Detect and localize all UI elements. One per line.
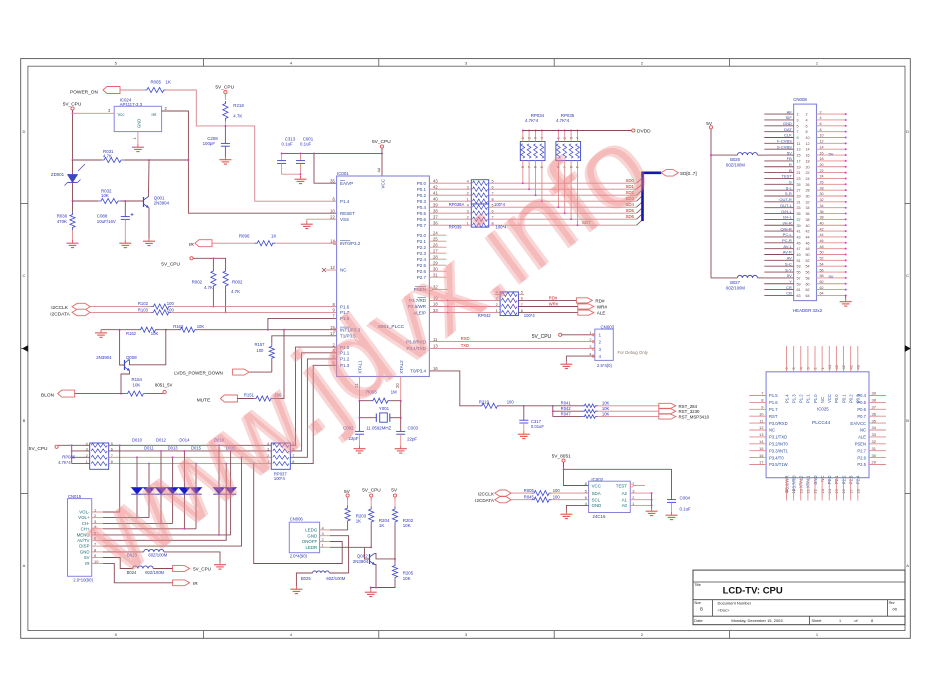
svg-text:ZD001: ZD001 xyxy=(51,172,65,177)
svg-text:P0.7: P0.7 xyxy=(417,223,427,228)
svg-text:A0: A0 xyxy=(622,503,628,508)
svg-text:30: 30 xyxy=(820,192,824,196)
svg-text:27: 27 xyxy=(797,189,801,193)
svg-text:P1.4: P1.4 xyxy=(784,394,789,403)
capacitor C088 electrolytic xyxy=(124,201,126,217)
svg-text:P0.3: P0.3 xyxy=(417,199,427,204)
svg-text:62: 62 xyxy=(820,286,824,290)
svg-text:4.7K: 4.7K xyxy=(233,114,242,119)
svg-text:7: 7 xyxy=(797,130,799,134)
svg-text:INT0/P3.2: INT0/P3.2 xyxy=(340,241,361,246)
svg-text:2: 2 xyxy=(599,339,602,344)
svg-text:10K: 10K xyxy=(197,324,205,329)
svg-text:4: 4 xyxy=(467,180,469,184)
svg-text:VSS: VSS xyxy=(340,217,349,222)
svg-text:CN006: CN006 xyxy=(290,517,304,522)
svg-text:29: 29 xyxy=(797,195,801,199)
svg-text:6: 6 xyxy=(806,124,808,128)
svg-text:48: 48 xyxy=(820,245,824,249)
wire GND pin xyxy=(566,505,588,511)
svg-text:31: 31 xyxy=(872,446,877,451)
svg-text:51: 51 xyxy=(797,259,801,263)
svg-text:4.7K: 4.7K xyxy=(204,285,213,290)
svg-text:8: 8 xyxy=(806,130,808,134)
port 5V_CPU out xyxy=(173,566,190,572)
wire P2 stub xyxy=(429,240,446,242)
svg-text:AV: AV xyxy=(787,256,792,261)
svg-text:10K: 10K xyxy=(602,406,610,411)
ground xyxy=(523,431,525,434)
svg-text:14: 14 xyxy=(759,439,764,444)
svg-text:15: 15 xyxy=(759,446,764,451)
svg-text:I2CDATA: I2CDATA xyxy=(475,498,495,503)
wire P2 stub xyxy=(429,264,446,266)
svg-text:CN008: CN008 xyxy=(793,97,807,102)
wire IR out xyxy=(103,563,173,582)
svg-text:31: 31 xyxy=(797,200,801,204)
svg-text:R002: R002 xyxy=(232,279,243,284)
svg-text:20: 20 xyxy=(806,165,810,169)
svg-text:C004: C004 xyxy=(680,496,691,501)
svg-text:RD#: RD# xyxy=(549,295,558,300)
svg-text:18: 18 xyxy=(820,157,824,161)
svg-text:1: 1 xyxy=(797,113,799,117)
svg-text:5V_CPU: 5V_CPU xyxy=(193,567,211,572)
svg-text:SIF: SIF xyxy=(786,115,793,120)
svg-text:35: 35 xyxy=(330,178,335,183)
svg-text:R: R xyxy=(789,162,792,167)
svg-text:P3.3/INT1: P3.3/INT1 xyxy=(769,448,789,453)
svg-text:S-R: S-R xyxy=(785,191,792,196)
svg-text:36: 36 xyxy=(806,212,810,216)
svg-text:DVDD: DVDD xyxy=(637,128,651,134)
svg-text:5V_CPU: 5V_CPU xyxy=(215,84,234,90)
svg-text:I2CCLK: I2CCLK xyxy=(478,492,495,497)
port RST_284 xyxy=(659,403,676,408)
svg-text:43: 43 xyxy=(433,178,438,183)
svg-text:25: 25 xyxy=(797,183,801,187)
svg-text:38: 38 xyxy=(806,218,810,222)
svg-text:SD[0..7]: SD[0..7] xyxy=(680,171,697,176)
svg-text:41: 41 xyxy=(433,190,438,195)
svg-text:3: 3 xyxy=(86,447,88,451)
svg-text:2.0*10(90): 2.0*10(90) xyxy=(73,578,93,583)
wire CN008 right ground stem xyxy=(845,295,847,298)
svg-text:PC-R: PC-R xyxy=(782,238,792,243)
svg-text:13: 13 xyxy=(759,432,764,437)
svg-text:R041: R041 xyxy=(561,401,572,406)
ground xyxy=(124,240,126,243)
svg-text:40: 40 xyxy=(820,221,824,225)
svg-text:28: 28 xyxy=(806,189,810,193)
svg-text:22: 22 xyxy=(330,214,335,219)
svg-text:60Z/100M: 60Z/100M xyxy=(326,576,345,581)
svg-text:29: 29 xyxy=(872,460,877,465)
svg-text:P1.4: P1.4 xyxy=(340,199,350,204)
ground xyxy=(295,586,297,589)
svg-text:RST_284: RST_284 xyxy=(679,404,698,409)
wire EA/VP xyxy=(314,153,337,183)
svg-text:RP036: RP036 xyxy=(62,455,75,460)
svg-text:44: 44 xyxy=(820,233,824,237)
svg-text:0.1uF: 0.1uF xyxy=(300,141,312,146)
port IR out xyxy=(173,580,190,586)
svg-text:19: 19 xyxy=(797,165,801,169)
svg-text:EA/VCC: EA/VCC xyxy=(850,421,866,426)
svg-text:Q002: Q002 xyxy=(357,553,368,558)
svg-text:100pF: 100pF xyxy=(203,141,216,146)
svg-text:DISP: DISP xyxy=(79,544,89,549)
svg-text:8: 8 xyxy=(820,128,822,132)
svg-text:LCD-TV: CPU: LCD-TV: CPU xyxy=(723,586,783,597)
ground xyxy=(72,240,74,243)
svg-text:WR#: WR# xyxy=(549,302,559,307)
svg-text:Rev: Rev xyxy=(889,601,895,605)
svg-text:10K: 10K xyxy=(602,411,610,416)
svg-text:P1.0: P1.0 xyxy=(813,394,818,403)
svg-text:Sheet: Sheet xyxy=(812,619,823,623)
svg-text:P0.3: P0.3 xyxy=(856,394,861,403)
svg-text:B: B xyxy=(789,168,792,173)
svg-text:DAT: DAT xyxy=(784,127,792,132)
ground xyxy=(400,446,402,449)
svg-text:10K: 10K xyxy=(403,576,411,581)
svg-text:I2CDATA: I2CDATA xyxy=(50,311,70,317)
svg-text:4.7K*4: 4.7K*4 xyxy=(525,118,539,123)
svg-text:56: 56 xyxy=(806,271,810,275)
svg-text:2: 2 xyxy=(86,454,88,458)
svg-text:AV-R: AV-R xyxy=(783,250,792,255)
svg-text:0.1uF: 0.1uF xyxy=(282,141,294,146)
wire P2 stub xyxy=(429,246,446,248)
svg-text:P3.0/RXD: P3.0/RXD xyxy=(769,421,788,426)
svg-text:58: 58 xyxy=(806,276,810,280)
svg-text:4.7K*4: 4.7K*4 xyxy=(556,118,570,123)
svg-text:P0.1: P0.1 xyxy=(417,187,427,192)
wire emitter xyxy=(148,208,150,239)
svg-text:GND: GND xyxy=(307,533,317,538)
svg-text:Vcc: Vcc xyxy=(118,112,125,117)
wire riser MUTE to INT1 row xyxy=(274,330,285,399)
svg-text:5V: 5V xyxy=(787,273,792,278)
wire P2 stub xyxy=(429,258,446,260)
svg-text:58: 58 xyxy=(820,274,824,278)
svg-text:37: 37 xyxy=(433,214,438,219)
wire to INT0 xyxy=(275,242,336,244)
svg-text:4: 4 xyxy=(599,354,602,359)
svg-text:R096: R096 xyxy=(239,234,250,239)
svg-text:CN003: CN003 xyxy=(601,324,615,329)
svg-text:37: 37 xyxy=(872,405,877,410)
svg-text:42: 42 xyxy=(433,184,438,189)
svg-text:R102: R102 xyxy=(138,301,149,306)
svg-text:42: 42 xyxy=(806,230,810,234)
wire VCC net xyxy=(564,462,589,485)
svg-text:100: 100 xyxy=(553,495,561,500)
svg-text:B027: B027 xyxy=(730,280,740,285)
svg-text:BLON: BLON xyxy=(41,392,55,398)
svg-text:34: 34 xyxy=(820,204,824,208)
wire DISP riser xyxy=(103,457,242,546)
svg-text:21: 21 xyxy=(797,171,801,175)
wire GND to B025 xyxy=(330,536,349,573)
wire RD WR ALE rows xyxy=(429,299,500,301)
svg-text:12: 12 xyxy=(806,142,810,146)
svg-text:60: 60 xyxy=(820,280,824,284)
svg-text:10: 10 xyxy=(330,208,335,213)
svg-text:3: 3 xyxy=(797,118,799,122)
svg-text:22: 22 xyxy=(820,169,824,173)
svg-text:R157: R157 xyxy=(255,342,266,347)
svg-text:2.5*4(0): 2.5*4(0) xyxy=(597,363,613,368)
svg-text:2.0*4(90): 2.0*4(90) xyxy=(290,554,308,559)
svg-text:ret: ret xyxy=(152,112,158,117)
svg-text:S-Y: S-Y xyxy=(785,267,792,272)
svg-text:5V: 5V xyxy=(829,274,834,279)
svg-text:P0.2: P0.2 xyxy=(417,193,427,198)
svg-text:P0.6: P0.6 xyxy=(857,407,866,412)
wire T0/P3.4 xyxy=(429,371,479,406)
svg-text:5V_CPU: 5V_CPU xyxy=(161,262,180,268)
svg-text:2: 2 xyxy=(820,110,822,114)
svg-text:41: 41 xyxy=(797,230,801,234)
svg-text:S-CVBS: S-CVBS xyxy=(777,144,792,149)
svg-text:Title: Title xyxy=(695,583,701,587)
svg-text:0.1uF: 0.1uF xyxy=(680,507,692,512)
ground xyxy=(148,238,150,241)
wire collector xyxy=(130,330,166,365)
svg-text:9: 9 xyxy=(797,136,799,140)
ground xyxy=(359,446,361,449)
svg-text:32: 32 xyxy=(872,439,877,444)
svg-text:23: 23 xyxy=(797,177,801,181)
svg-text:24C16: 24C16 xyxy=(593,514,606,519)
wire xyxy=(250,371,272,373)
resistor pack RP042 xyxy=(500,292,518,316)
svg-text:20: 20 xyxy=(820,163,824,167)
svg-text:NC: NC xyxy=(340,268,347,273)
wire xyxy=(58,444,89,446)
svg-text:52: 52 xyxy=(806,259,810,263)
IC002 TEST pin stub xyxy=(630,484,633,487)
svg-text:3: 3 xyxy=(534,137,538,139)
svg-text:B: B xyxy=(906,418,909,423)
svg-text:Document Number: Document Number xyxy=(718,601,752,606)
svg-text:ALE: ALE xyxy=(597,311,606,316)
port SD[0..7] xyxy=(661,170,678,177)
svg-text:64: 64 xyxy=(820,292,824,296)
svg-text:GND: GND xyxy=(783,121,792,126)
svg-text:12: 12 xyxy=(759,425,764,430)
svg-text:24: 24 xyxy=(806,177,810,181)
svg-text:CR: CR xyxy=(786,285,792,290)
svg-text:P1.5: P1.5 xyxy=(769,393,778,398)
svg-text:P0.2: P0.2 xyxy=(848,394,853,403)
svg-text:OUT-R: OUT-R xyxy=(779,197,792,202)
svg-text:CB: CB xyxy=(786,291,792,296)
svg-text:100: 100 xyxy=(553,488,561,493)
svg-text:53: 53 xyxy=(797,265,801,269)
svg-text:38: 38 xyxy=(820,216,824,220)
svg-text:EA/VP: EA/VP xyxy=(340,181,353,186)
bus SD[0..7] xyxy=(637,178,643,184)
wire keypad rows xyxy=(109,444,272,446)
svg-text:48: 48 xyxy=(806,247,810,251)
svg-text:2N3904: 2N3904 xyxy=(154,201,170,206)
ground xyxy=(565,511,567,514)
svg-text:44: 44 xyxy=(806,235,810,239)
wire A2 A1 A0 to ground xyxy=(630,492,651,494)
svg-text:1K: 1K xyxy=(166,79,171,84)
svg-text:NC: NC xyxy=(769,428,775,433)
svg-text:46: 46 xyxy=(820,239,824,243)
resistor R030 xyxy=(72,201,74,212)
svg-text:C: C xyxy=(906,273,909,278)
resistor pack RP038A xyxy=(471,180,488,204)
svg-text:22: 22 xyxy=(806,171,810,175)
svg-text:VCC: VCC xyxy=(827,394,832,403)
svg-text:P2.7: P2.7 xyxy=(857,448,866,453)
wire base xyxy=(120,330,125,365)
microcontroller IC025 PLCC44 xyxy=(766,372,869,478)
svg-text:4: 4 xyxy=(540,137,544,139)
wire xyxy=(193,257,213,259)
svg-text:AV-L: AV-L xyxy=(783,244,792,249)
svg-text:49: 49 xyxy=(797,253,801,257)
svg-text:D: D xyxy=(22,129,25,134)
svg-text:RESET: RESET xyxy=(340,211,355,216)
svg-text:40: 40 xyxy=(433,196,438,201)
svg-text:Q008: Q008 xyxy=(126,355,137,360)
svg-text:GND: GND xyxy=(592,503,602,508)
svg-text:11: 11 xyxy=(797,142,801,146)
ground xyxy=(671,512,673,515)
svg-text:Size: Size xyxy=(694,601,701,605)
wire TXD row xyxy=(429,347,594,349)
ground xyxy=(137,144,139,147)
svg-text:39: 39 xyxy=(872,391,877,396)
svg-text:PSEN: PSEN xyxy=(855,442,866,447)
resistor pack RP039 xyxy=(471,204,488,227)
svg-text:6: 6 xyxy=(820,122,822,126)
svg-text:5V: 5V xyxy=(84,555,89,560)
svg-text:For Debug Only: For Debug Only xyxy=(618,350,649,355)
svg-text:FB: FB xyxy=(787,156,792,161)
svg-text:100: 100 xyxy=(167,307,175,312)
svg-text:GND: GND xyxy=(80,550,90,555)
svg-text:Y: Y xyxy=(789,279,792,284)
svg-text:12: 12 xyxy=(330,265,335,270)
svg-text:4.7K: 4.7K xyxy=(231,289,240,294)
svg-text:LVDS_POWER_DOWN: LVDS_POWER_DOWN xyxy=(174,371,223,376)
svg-text:38: 38 xyxy=(433,208,438,213)
svg-text:5V_CPU: 5V_CPU xyxy=(362,488,381,494)
wire to RST ports xyxy=(598,405,659,407)
wire P2 stub xyxy=(429,234,446,236)
wire pin1 to ground xyxy=(137,132,139,144)
wire ONOFF xyxy=(254,464,343,564)
power DVDD xyxy=(523,130,632,132)
svg-text:R065: R065 xyxy=(151,79,162,84)
wire xyxy=(500,405,582,407)
svg-text:LEDR: LEDR xyxy=(305,545,317,550)
svg-text:P2.6: P2.6 xyxy=(857,455,866,460)
svg-text:P0.0: P0.0 xyxy=(417,181,427,186)
svg-text:P3.5/T1W: P3.5/T1W xyxy=(769,462,788,467)
svg-text:SDA: SDA xyxy=(592,491,601,496)
svg-text:52: 52 xyxy=(820,257,824,261)
svg-text:10: 10 xyxy=(820,134,824,138)
svg-text:47: 47 xyxy=(797,247,801,251)
svg-text:14: 14 xyxy=(806,148,810,152)
svg-text:P0.1: P0.1 xyxy=(841,394,846,403)
svg-text:1K: 1K xyxy=(379,523,384,528)
svg-text:WR#: WR# xyxy=(597,305,608,310)
svg-text:46: 46 xyxy=(806,241,810,245)
svg-text:R047: R047 xyxy=(561,411,572,416)
svg-text:1: 1 xyxy=(839,619,841,623)
svg-text:VCC: VCC xyxy=(592,483,601,488)
svg-text:RST_MSP3410: RST_MSP3410 xyxy=(679,415,710,420)
wire collector xyxy=(148,160,151,197)
svg-text:TEST: TEST xyxy=(616,483,628,488)
svg-text:LEDG: LEDG xyxy=(305,528,318,533)
svg-text:35: 35 xyxy=(872,418,877,423)
wire RXD row xyxy=(429,341,594,343)
svg-text:R203: R203 xyxy=(356,513,367,518)
svg-text:P2.5: P2.5 xyxy=(857,462,866,467)
ground xyxy=(565,361,567,364)
ground near R162 xyxy=(100,330,102,333)
svg-text:P1.6: P1.6 xyxy=(769,400,778,405)
svg-text:24: 24 xyxy=(820,175,824,179)
wire P2 stub xyxy=(429,276,446,278)
svg-text:36: 36 xyxy=(820,210,824,214)
svg-text:50: 50 xyxy=(806,253,810,257)
svg-text:34: 34 xyxy=(872,425,877,430)
svg-text:Date:: Date: xyxy=(694,619,703,623)
svg-text:RST: RST xyxy=(769,414,778,419)
svg-text:Monday, December 15, 2003: Monday, December 15, 2003 xyxy=(731,618,783,623)
svg-text:4: 4 xyxy=(820,116,822,120)
svg-text:2N3904: 2N3904 xyxy=(96,355,112,360)
port RD# xyxy=(576,298,592,303)
svg-text:GND: GND xyxy=(137,119,142,128)
svg-text:3: 3 xyxy=(467,186,469,190)
svg-text:A1: A1 xyxy=(622,498,628,503)
svg-text:63: 63 xyxy=(797,294,801,298)
svg-text:IC001: IC001 xyxy=(337,171,349,176)
svg-text:P0.6: P0.6 xyxy=(417,217,427,222)
svg-text:4.7K*4: 4.7K*4 xyxy=(58,460,71,465)
ground xyxy=(845,299,847,302)
svg-text:B: B xyxy=(700,607,703,612)
svg-text:56: 56 xyxy=(820,268,824,272)
svg-text:NC: NC xyxy=(860,428,866,433)
wire to ports xyxy=(518,299,576,301)
svg-text:13: 13 xyxy=(797,148,801,152)
svg-text:Q001: Q001 xyxy=(154,195,165,200)
wire emitter xyxy=(121,371,130,394)
svg-text:5V_CPU: 5V_CPU xyxy=(372,139,391,145)
svg-text:P1.2: P1.2 xyxy=(799,394,804,403)
svg-text:42: 42 xyxy=(820,227,824,231)
svg-text:37: 37 xyxy=(797,218,801,222)
wire base xyxy=(330,546,371,548)
svg-text:2: 2 xyxy=(467,192,469,196)
svg-text:P0.4: P0.4 xyxy=(417,205,427,210)
svg-text:R103: R103 xyxy=(138,307,149,312)
